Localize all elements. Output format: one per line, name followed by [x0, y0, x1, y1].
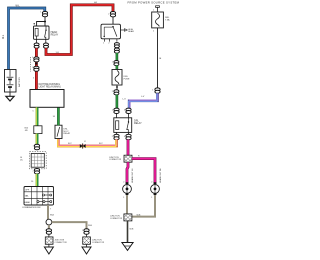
svg-text:R-Y: R-Y — [68, 143, 72, 145]
svg-text:FROM POWER SOURCE SYSTEM: FROM POWER SOURCE SYSTEM — [128, 0, 180, 4]
svg-text:RELAY: RELAY — [134, 122, 142, 125]
junction connector box on magenta — [124, 155, 132, 162]
svg-text:DAYTIME RUNNING: DAYTIME RUNNING — [39, 83, 61, 86]
connector block on green wire — [34, 126, 42, 134]
wire blue battery-to-headlight-relay (W-L) — [9, 8, 45, 70]
headlight LH bulb — [123, 182, 132, 195]
wire green DRL relay main to resistor — [57, 107, 60, 125]
connector pair DRL relay no.4 top-left — [114, 108, 119, 113]
wire magenta to headlight RH — [132, 159, 155, 184]
wire W-B headlight LH to ground junction — [126, 195, 128, 214]
right ground (body ground triangle) — [122, 243, 133, 251]
junction connector box bottom right — [124, 214, 132, 221]
svg-text:W-B: W-B — [88, 225, 93, 227]
connector pair above DRL fuse — [114, 61, 119, 66]
svg-text:BATTERY: BATTERY — [18, 77, 21, 87]
connector pair above junction connector — [34, 144, 39, 149]
svg-text:IJ: IJ — [84, 141, 86, 143]
wire magenta relay no.4 to headlight junction — [127, 140, 130, 156]
DRL relay no.4 box — [114, 114, 132, 133]
left ground (hollow triangle) — [44, 244, 53, 254]
svg-text:1: 1 — [112, 62, 113, 64]
DRL fuse box — [112, 70, 122, 86]
svg-text:1: 1 — [45, 230, 46, 232]
connector pair DRL relay no.4 bottom-right — [126, 132, 131, 139]
connector pair DRL relay no.4 bottom-left — [114, 132, 119, 139]
connector pair below DRL fuse — [114, 90, 119, 95]
wire green short into fuse — [116, 65, 119, 69]
wire from splice to left junction connector — [48, 225, 50, 229]
wire red right loop to dimmer switch — [46, 5, 113, 55]
arrow tab right of dimmer switch — [121, 29, 135, 33]
svg-text:HEADLIGHT RH: HEADLIGHT RH — [159, 168, 162, 183]
connector pair below headlight relay pin 2 — [44, 39, 49, 48]
connector pair B below dimmer switch — [114, 48, 119, 53]
svg-text:2: 2 — [123, 182, 124, 184]
svg-text:2: 2 — [32, 67, 33, 69]
svg-text:1: 1 — [82, 230, 83, 232]
svg-text:2: 2 — [112, 136, 113, 138]
svg-text:RELAY: RELAY — [51, 33, 59, 36]
wire green dimmer to fuse connector — [116, 53, 119, 61]
svg-text:W-L: W-L — [16, 6, 21, 8]
wire green fuse to DRL relay no.4 — [116, 95, 119, 109]
DRL resistor box — [55, 125, 62, 138]
connector pair below headlight relay pin 1 — [34, 39, 39, 48]
splice circle E — [46, 219, 52, 225]
wire green-yellow below connector block — [36, 134, 37, 145]
svg-text:2: 2 — [33, 171, 34, 173]
junction connector hatched box (left middle) — [30, 152, 47, 169]
svg-text:1: 1 — [40, 12, 41, 14]
svg-text:1: 1 — [123, 197, 124, 199]
svg-text:CONNECTOR: CONNECTOR — [55, 242, 68, 244]
wire green-yellow left column (G-Y) — [36, 107, 37, 126]
wire below fuse with dot — [116, 85, 118, 90]
wire W-B headlight RH to ground junction — [132, 195, 155, 217]
svg-text:4: 4 — [124, 136, 125, 138]
svg-text:3: 3 — [124, 110, 125, 112]
svg-text:RELAY: RELAY — [64, 132, 71, 135]
fuse 7.5A from power source (right column) — [152, 6, 164, 28]
svg-text:LIGHT RELAY(MAIN): LIGHT RELAY(MAIN) — [39, 85, 61, 88]
svg-text:1: 1 — [151, 197, 152, 199]
inline connector on R-Y wire — [80, 141, 86, 149]
svg-text:W-B: W-B — [50, 215, 55, 217]
svg-text:HEAD: HEAD — [24, 201, 30, 204]
svg-text:OFF: OFF — [25, 190, 30, 192]
svg-text:2: 2 — [151, 182, 152, 184]
dashed boundary left of red connectors — [29, 57, 31, 72]
DRL relay main box — [30, 90, 64, 108]
dimmer switch box — [101, 17, 121, 42]
svg-text:W-B: W-B — [137, 214, 142, 216]
wire from fuse down to connector (right column) — [157, 28, 159, 88]
svg-text:2: 2 — [108, 13, 109, 15]
wire R-Y (red/yellow) relay no.4 to DRL resistor — [58, 139, 117, 147]
connector pair on red wire (upper) — [34, 57, 39, 62]
connector pair above right ground junction — [84, 229, 89, 234]
svg-text:W-B: W-B — [130, 229, 135, 231]
connector pair on right column — [155, 88, 160, 93]
wire from splice to right junction connector — [52, 222, 87, 229]
wire W-B from combination switch to splice — [47, 205, 49, 219]
tiny pin numbers — [32, 12, 153, 233]
combination switch (light control switch) table — [24, 187, 54, 206]
svg-text:FUSE: FUSE — [124, 79, 130, 81]
wire red left column to DRL relay main — [35, 48, 38, 89]
battery box — [5, 70, 17, 93]
headlight relay (relay box with coil and contact) — [34, 26, 50, 39]
svg-text:COMBINATION SW: COMBINATION SW — [22, 206, 40, 209]
svg-text:1: 1 — [112, 110, 113, 112]
svg-text:7.5A: 7.5A — [165, 19, 170, 22]
wire purple-blue (L-V) fuse to DRL relay no.4 — [129, 93, 158, 108]
svg-text:HEADLIGHT LH: HEADLIGHT LH — [131, 168, 134, 183]
right junction connector hatched box — [83, 234, 91, 244]
svg-text:BEAM: BEAM — [128, 30, 134, 33]
connector on red wire above dimmer switch — [110, 12, 115, 17]
wire W-B to right ground — [127, 221, 129, 243]
svg-text:W-L: W-L — [3, 34, 5, 39]
connector pair on red wire (lower) — [34, 66, 39, 71]
wire green-yellow to combination switch — [36, 174, 37, 187]
battery ground arrow — [6, 92, 14, 101]
svg-text:1: 1 — [32, 57, 33, 59]
connector on blue wire above headlight relay — [42, 11, 47, 16]
headlight RH bulb — [151, 182, 160, 195]
left junction connector hatched box — [45, 234, 53, 244]
connector pair above left ground junction — [46, 229, 51, 234]
right-of-splice ground (hollow triangle) — [82, 244, 91, 254]
wire magenta to headlight LH — [127, 162, 128, 183]
svg-text:1: 1 — [152, 89, 153, 91]
svg-text:CONNECTOR: CONNECTOR — [92, 242, 105, 244]
junction dot on red wire — [35, 63, 37, 65]
connector pair A below dimmer switch — [114, 43, 119, 48]
svg-text:2: 2 — [112, 91, 113, 93]
svg-text:R-Y: R-Y — [99, 143, 103, 145]
wire from connector into headlight relay with branch node — [34, 17, 47, 26]
svg-text:1: 1 — [33, 145, 34, 147]
svg-text:CONNECTOR: CONNECTOR — [110, 218, 123, 220]
connector pair DRL relay no.4 top-right — [126, 108, 131, 113]
svg-text:CONNECTOR: CONNECTOR — [109, 159, 122, 161]
connector pair below junction connector — [34, 169, 39, 174]
